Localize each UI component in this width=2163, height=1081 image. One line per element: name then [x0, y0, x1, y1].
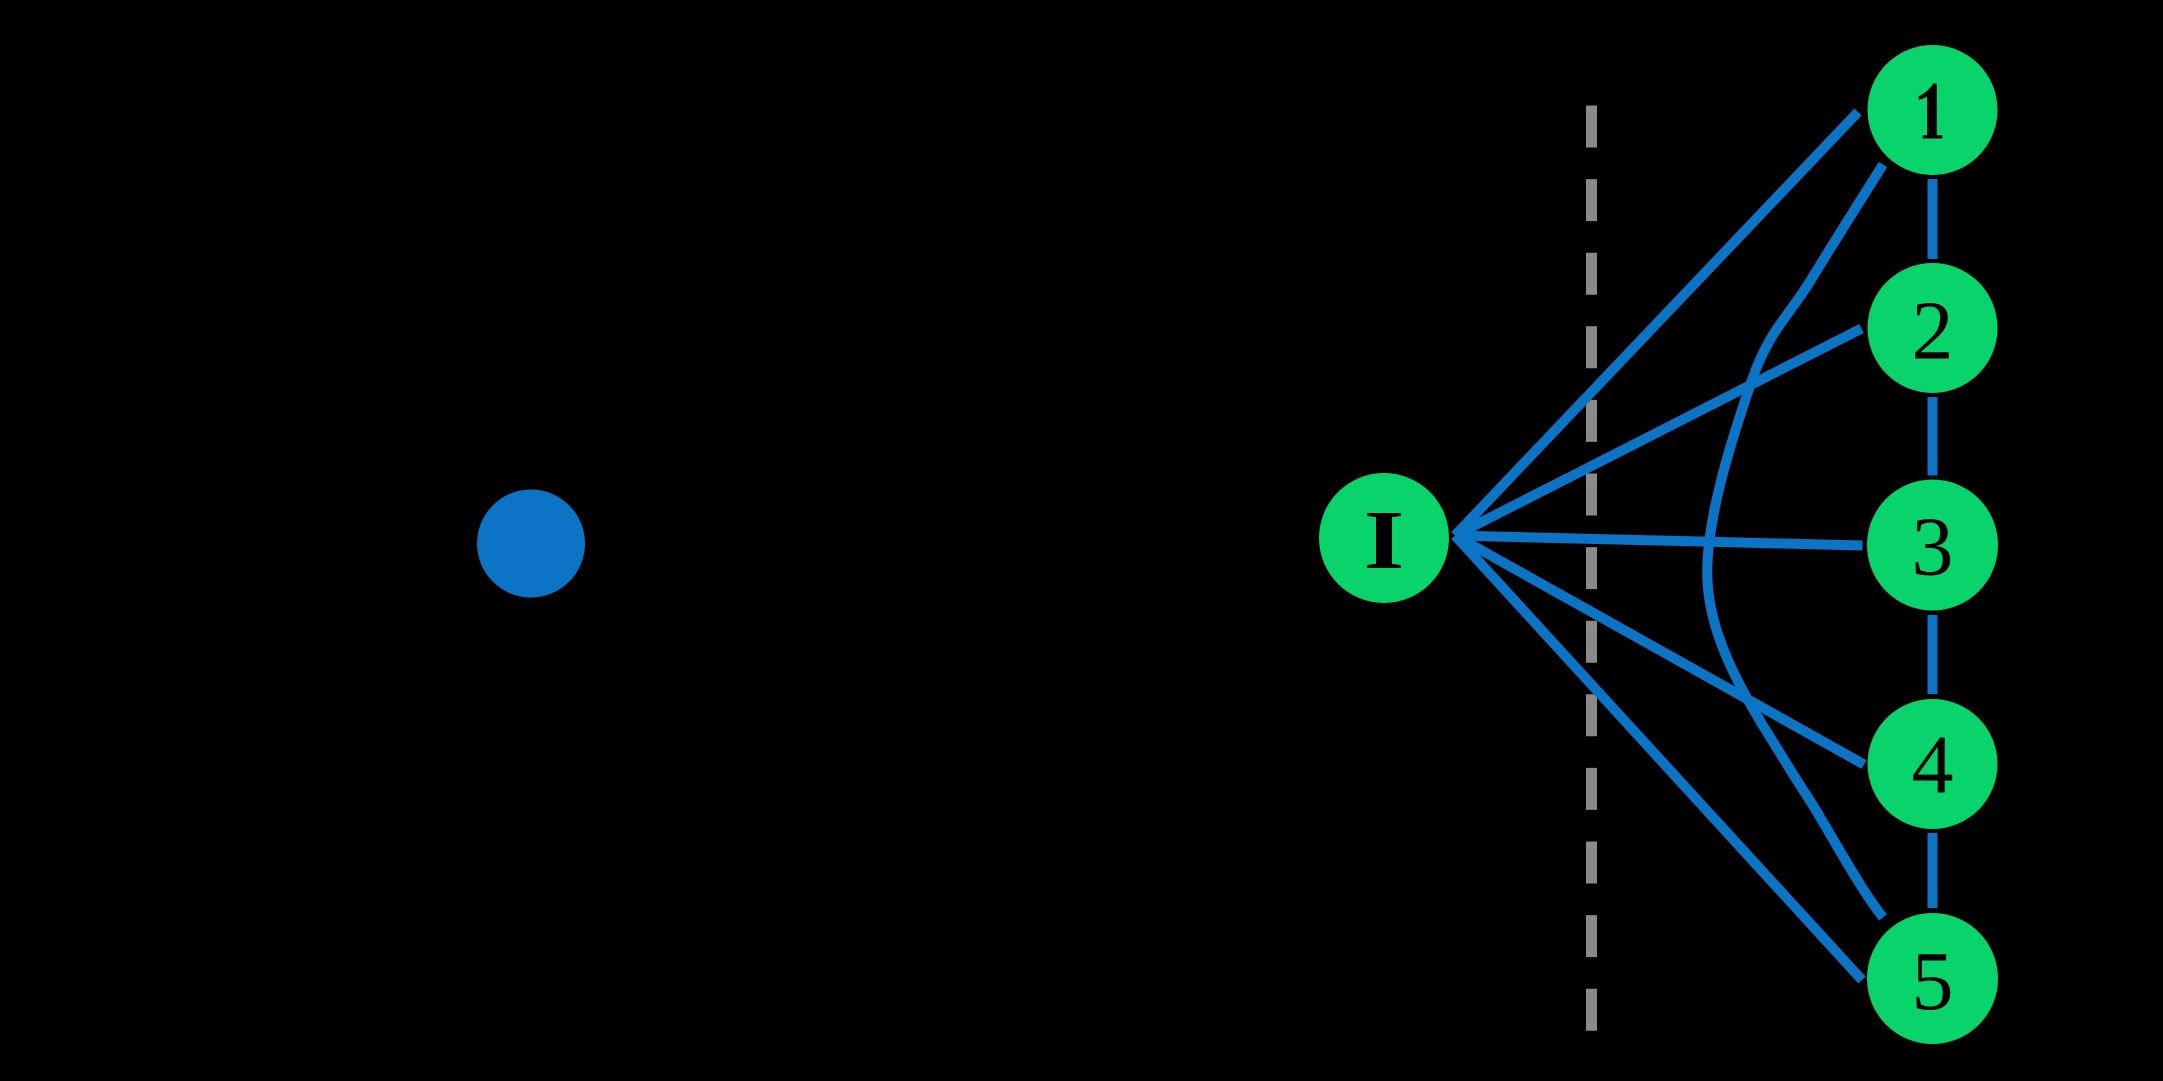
edge 1-2	[1928, 179, 1938, 259]
edge I-1	[1455, 112, 1858, 536]
node 3	[1867, 480, 1998, 611]
node 2	[1868, 263, 1998, 393]
svg-text:I: I	[1364, 494, 1405, 586]
node I	[1319, 473, 1449, 603]
svg-text:2: 2	[1912, 285, 1954, 378]
node 4	[1868, 699, 1998, 829]
svg-text:3: 3	[1912, 501, 1954, 594]
edge 3-4	[1928, 615, 1938, 694]
svg-text:5: 5	[1912, 935, 1954, 1028]
edge I-4	[1455, 536, 1864, 765]
edge I-5	[1455, 536, 1862, 981]
node 1	[1868, 45, 1998, 175]
curved edge 1-5 (arc bulging left)	[1707, 165, 1883, 918]
svg-text:4: 4	[1912, 719, 1954, 812]
blue dot (left isolated vertex)	[477, 490, 585, 598]
dashed separator line	[1586, 106, 1597, 1031]
edge 2-3	[1928, 397, 1938, 476]
edge I-2	[1455, 329, 1862, 536]
edge I-3	[1455, 536, 1863, 546]
edge 4-5	[1928, 833, 1938, 908]
node 5	[1867, 913, 1998, 1044]
